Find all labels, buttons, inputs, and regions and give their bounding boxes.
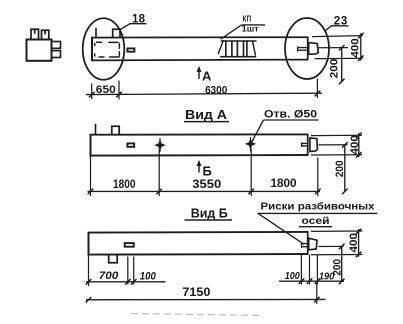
svg-text:100: 100	[285, 270, 300, 282]
section sketch: left loop tab	[31, 29, 39, 39]
top view: KP pad detail top line	[221, 40, 256, 42]
svg-text:200: 200	[329, 59, 341, 79]
dim line 200	[344, 145, 346, 192]
view B left bottom dims 700 100	[86, 255, 166, 286]
section sketch: side plate upper	[52, 42, 61, 49]
view B right vertical dims	[311, 229, 363, 285]
top view: slot mark	[127, 48, 134, 51]
top view right vertical dims	[312, 33, 364, 85]
svg-text:Риски разбивочных: Риски разбивочных	[261, 201, 375, 213]
svg-text:1шт: 1шт	[242, 25, 259, 34]
svg-text:Отв. Ø50: Отв. Ø50	[264, 109, 317, 121]
view B: end plate trapezoid	[309, 238, 317, 250]
dim 7150	[86, 281, 326, 303]
top view: left anchor loop 18	[113, 29, 120, 37]
ext mid 200	[319, 47, 349, 49]
ext lines	[90, 156, 92, 196]
svg-text:190: 190	[319, 271, 335, 283]
svg-text:400: 400	[349, 135, 361, 155]
view A: left riska tick	[95, 125, 97, 135]
dim line 200	[341, 48, 343, 82]
view B: beam bottom line	[89, 253, 308, 256]
top view: beam left edge	[91, 38, 93, 61]
top view: left riska tick	[95, 29, 97, 38]
section arrow A	[198, 68, 200, 79]
top view: end plate trapezoid	[309, 43, 319, 55]
svg-text:100: 100	[140, 270, 157, 282]
svg-text:КП: КП	[243, 15, 252, 24]
ticks	[88, 189, 94, 195]
view B: end pin (riska)	[302, 243, 308, 248]
view A right vertical dims	[311, 133, 362, 195]
view B: beam left edge	[88, 233, 90, 255]
view A: beam bottom line	[91, 154, 308, 157]
view A: beam left edge	[90, 135, 92, 156]
top view: KP pad detail bottom line	[221, 56, 256, 58]
leader to riska	[258, 213, 304, 244]
svg-text:1800: 1800	[113, 179, 136, 191]
view A: star mark left	[154, 139, 166, 151]
svg-text:700: 700	[99, 270, 119, 282]
section sketch: side plate lower	[52, 51, 61, 58]
ext beam bottom right	[315, 57, 363, 60]
svg-text:400: 400	[348, 233, 360, 253]
svg-text:7150: 7150	[182, 285, 210, 299]
view A: end pin	[302, 143, 308, 147]
svg-text:осей: осей	[302, 215, 330, 227]
view A: beam right end edge	[307, 134, 309, 155]
top view: KP pad left slash	[218, 41, 223, 54]
section sketch: main square	[27, 40, 52, 61]
svg-text:6300: 6300	[205, 85, 228, 97]
top view: end pin	[298, 47, 307, 51]
top view: KP pad right slash	[253, 41, 256, 55]
top view: right detail ellipse	[285, 18, 329, 79]
view A: left anchor loop	[112, 126, 119, 134]
ext beam top right	[312, 36, 363, 37]
ext line 650	[118, 81, 120, 100]
view B: left tab below	[109, 255, 118, 263]
view B right bottom dims 100 190	[279, 255, 344, 285]
dim line 400	[358, 229, 360, 257]
svg-text:Вид Б: Вид Б	[191, 206, 228, 220]
dim line 200	[341, 247, 343, 282]
top view: left detail ellipse	[83, 18, 125, 79]
view B: slot mark	[125, 243, 134, 247]
ticks	[89, 92, 95, 98]
view A: star mark right (hole O50)	[245, 138, 257, 150]
svg-text:А: А	[202, 68, 212, 83]
top view: beam top line	[92, 36, 308, 38]
view A dims: 1800 3550 1800	[88, 149, 321, 197]
ext line left	[91, 83, 93, 99]
svg-text:3550: 3550	[192, 177, 221, 191]
section arrow B	[198, 162, 200, 173]
view B: beam right end edge	[307, 232, 309, 254]
top view: KP pad verticals	[226, 41, 247, 57]
section sketch: right loop tab	[42, 30, 49, 39]
view A: end plate trapezoid	[310, 138, 318, 152]
dim line 400	[358, 133, 360, 157]
faint scan artifact line	[131, 314, 262, 316]
svg-text:400: 400	[349, 38, 361, 58]
svg-text:650: 650	[96, 84, 116, 96]
ext line right	[316, 79, 318, 99]
dim 650 / 6300 line	[86, 79, 322, 100]
top view: beam bottom line	[92, 59, 308, 62]
dim line 400	[360, 33, 362, 60]
top view: beam right end edge	[307, 37, 309, 58]
view A: slot mark	[127, 143, 134, 146]
svg-text:1800: 1800	[271, 178, 297, 190]
svg-text:200: 200	[334, 160, 346, 177]
view B: beam top line	[89, 231, 308, 234]
top view: hidden embedded plate (dashed)	[95, 42, 120, 57]
svg-text:Вид А: Вид А	[185, 108, 227, 122]
view A: beam top line	[91, 133, 308, 135]
